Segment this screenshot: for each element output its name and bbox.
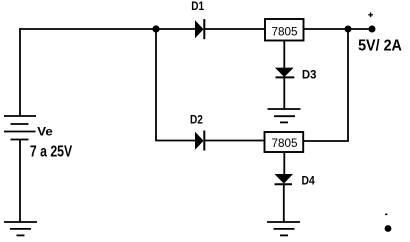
ground symbol below D3 [268,109,301,122]
svg-text:7805: 7805 [271,26,298,39]
svg-text:7805: 7805 [271,137,298,150]
battery Ve plate 1 (long) [4,115,36,117]
node: - output terminal dot [385,225,392,232]
diode D4 [275,174,294,184]
wire: U1 pin 2 down to D3 [283,41,285,69]
node A junction dot [152,25,159,32]
wire: vertical from junction A down to D2 row [155,29,157,141]
wire: D2 row horizontal to D2 anode [155,140,195,142]
wire: D4 cathode down to ground [283,184,285,222]
svg-text:7 a 25V: 7 a 25V [30,144,73,161]
battery Ve plate 3 (long) [4,131,36,133]
wire: D2 cathode to U2 input [204,140,265,142]
svg-text:Ve: Ve [37,125,53,139]
label + (positive terminal) [368,13,373,18]
battery Ve plate 4 (short) [11,139,29,141]
label - (negative terminal) [385,214,388,216]
battery Ve plate 2 (short) [11,123,29,125]
ground symbol below D4 [267,222,300,235]
svg-text:D2: D2 [190,112,203,126]
regulator U1 7805 [265,19,304,41]
node: + output terminal dot [369,26,376,33]
svg-text:5V/ 2A: 5V/ 2A [358,38,402,55]
diode D1 [195,19,204,39]
wire: U1 output to + terminal [304,28,373,30]
ground symbol below battery [4,222,37,235]
svg-text:D4: D4 [302,174,315,188]
wire: U2 pin 2 down to D4 [283,152,285,174]
diode D3 [275,68,294,78]
wire: top rail junction A to D1 anode [156,28,196,30]
svg-text:D3: D3 [302,68,317,82]
wire: left vertical from top rail down to battery [19,28,21,116]
node: output junction dot [345,26,352,33]
wire: D1 cathode to U1 input [204,28,265,30]
wire: top rail from battery top to junction A [19,28,156,30]
wire: battery negative down to ground [19,140,21,223]
wire: vertical from output junction down to U2 output [347,29,349,141]
regulator U2 7805 [265,132,304,152]
svg-text:D1: D1 [191,0,204,13]
wire: U2 output to vertical riser [304,140,349,142]
wire: D3 cathode down to ground [283,77,285,109]
diode D2 [195,131,204,151]
